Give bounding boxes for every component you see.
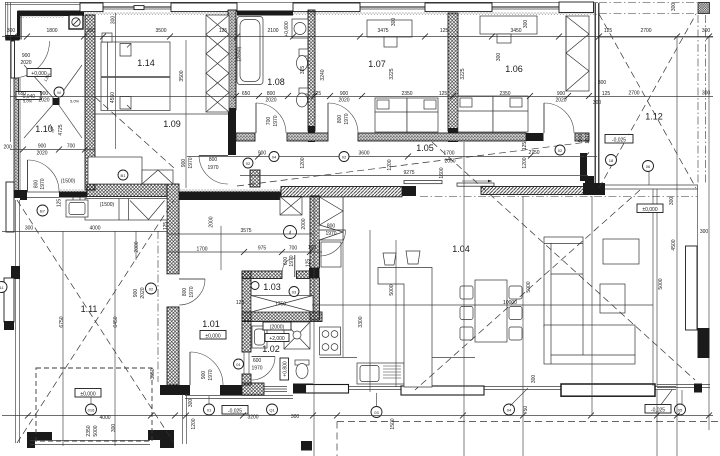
hall dim line vertical [185, 40, 187, 188]
porch step lines [183, 394, 294, 444]
svg-text:1970: 1970 [188, 157, 194, 168]
window pier box P5 corner [559, 2, 594, 13]
svg-text:04: 04 [507, 408, 512, 413]
svg-text:600: 600 [253, 358, 262, 364]
spine wall hatched band east segment [481, 187, 586, 195]
svg-text:125: 125 [604, 28, 613, 34]
svg-text:05: 05 [678, 408, 683, 413]
south wall 1.01 left segment [160, 385, 190, 395]
door arc 1.08 [256, 103, 286, 133]
svg-text:300: 300 [188, 399, 194, 408]
svg-text:(2000): (2000) [270, 325, 285, 331]
shower 1.02 [284, 322, 310, 349]
svg-text:02: 02 [342, 155, 347, 160]
svg-text:1970: 1970 [208, 369, 214, 380]
wardrobe 1.06 side triangles [566, 16, 589, 91]
window W-left2 box [6, 182, 14, 232]
svg-text:02: 02 [149, 287, 154, 292]
wall 1.07/1.06 crosshatch vertical [448, 13, 458, 131]
svg-text:300: 300 [669, 197, 675, 206]
window W1 north glazing lines [84, 6, 559, 9]
svg-text:900: 900 [40, 91, 49, 97]
dim row y246 [168, 251, 322, 253]
nightstand 1.14 [102, 33, 112, 42]
sofa vertical section [544, 237, 583, 327]
sliding door leaf A [404, 181, 442, 184]
svg-text:2100: 2100 [267, 28, 278, 34]
svg-text:02: 02 [246, 161, 251, 166]
horizontal thin helper lines [10, 37, 713, 305]
svg-text:(1500): (1500) [61, 179, 76, 185]
fridge [321, 242, 341, 267]
level box +0,800 vertical [280, 358, 289, 380]
kitchen wall crosshatch lower [310, 278, 320, 320]
dining table [475, 280, 507, 342]
bath 1.03 north wall crosshatch [242, 271, 282, 279]
spine wall pier west [20, 190, 27, 200]
svg-text:3550: 3550 [150, 368, 156, 379]
svg-text:B1: B1 [121, 173, 127, 178]
bathtub 1.03 with cross [251, 296, 313, 313]
dining chairs right [509, 286, 522, 340]
svg-text:900: 900 [557, 91, 566, 97]
svg-text:B7: B7 [40, 209, 46, 214]
svg-text:900: 900 [133, 289, 139, 298]
door arc 1.06 [544, 103, 574, 133]
svg-text:325: 325 [300, 66, 306, 75]
bed A room 1.06 [458, 96, 493, 132]
svg-text:03: 03 [374, 410, 379, 415]
kitchen hob [320, 327, 341, 355]
svg-text:2350: 2350 [86, 425, 92, 436]
svg-text:100: 100 [308, 245, 317, 251]
svg-text:(2650): (2650) [237, 46, 243, 61]
spine wall black band center [179, 192, 281, 201]
west wall upper dark [17, 11, 21, 40]
east exterior wall double lines [595, 3, 599, 183]
sofa horizontal section [544, 325, 635, 364]
bedroom south wall segment 1.08 left [236, 133, 255, 141]
terrace 1.12 north dashdot [599, 2, 697, 4]
wall 1.10/1.14 crosshatch vertical [85, 15, 95, 190]
svg-text:±0,000: ±0,000 [642, 207, 657, 213]
svg-text:1.01: 1.01 [202, 319, 220, 329]
svg-text:4000: 4000 [89, 226, 100, 232]
coffee table [600, 284, 625, 313]
south wall pier kitchen [293, 384, 313, 394]
south wall entry right segment [220, 385, 242, 395]
svg-text:900: 900 [181, 159, 187, 168]
hall bench L [88, 157, 173, 184]
kitchen sink unit [357, 363, 404, 384]
svg-text:800: 800 [209, 157, 218, 163]
wire top boundary thin line [5, 1, 598, 3]
svg-text:5000: 5000 [658, 278, 664, 289]
bath 1.03 south wall crosshatch [242, 312, 322, 322]
svg-text:300: 300 [700, 229, 709, 235]
bath 1.03 west wall crosshatch [242, 271, 251, 321]
svg-text:1970: 1970 [207, 165, 218, 171]
svg-text:2020: 2020 [20, 60, 31, 66]
svg-text:2350: 2350 [499, 91, 510, 97]
door arc kitchen from hall [320, 230, 346, 256]
west wall mid speckled [14, 78, 19, 191]
corridor circles [37, 87, 654, 239]
svg-text:1500: 1500 [390, 418, 396, 429]
svg-text:-0,025: -0,025 [612, 138, 626, 144]
svg-text:2350: 2350 [401, 91, 412, 97]
shower niche X below spine [280, 197, 302, 216]
terrace 1.12 SE black bar [698, 328, 710, 358]
wall 1.11/1.01 crosshatch vertical lower [167, 307, 179, 385]
spine wall black band left [59, 192, 87, 198]
vertical dim texts top [58, 3, 677, 136]
bidet 1.08 [297, 88, 309, 107]
wall step black near east [585, 176, 594, 187]
SE corner block of house [583, 183, 605, 195]
terrace planter [686, 246, 698, 330]
svg-text:1.12: 1.12 [645, 112, 663, 122]
corridor dim chain y158 [187, 156, 597, 158]
dim texts top row [7, 28, 711, 34]
terrace 1.11 SW corner block [27, 432, 52, 448]
bedroom south wall segment east end [575, 133, 589, 141]
svg-text:125: 125 [602, 91, 611, 97]
bed B room 1.06 [493, 96, 528, 132]
svg-text:±0,000: ±0,000 [205, 334, 220, 340]
living east window wall double line [653, 189, 657, 386]
svg-text:1970: 1970 [344, 113, 350, 124]
bedroom south wall segment 1.07/1.06 [358, 133, 526, 141]
kitchen tall cabinet triangles [320, 197, 344, 240]
svg-text:300: 300 [7, 28, 16, 34]
lamp circle 1.03 [251, 282, 259, 290]
svg-text:1.08: 1.08 [267, 77, 285, 87]
svg-text:+0,600: +0,600 [284, 21, 290, 37]
svg-text:125: 125 [219, 28, 228, 34]
spine wall insulation center [179, 189, 281, 192]
bed A room 1.07 [375, 98, 407, 132]
wc 1.02 west wall crosshatch [242, 321, 251, 352]
svg-text:125: 125 [57, 199, 63, 208]
slope lines 1.10 [24, 65, 82, 138]
svg-text:1600: 1600 [439, 167, 445, 178]
svg-text:300: 300 [25, 226, 34, 232]
terrace 1.12 north edge thin lines [605, 185, 698, 189]
svg-text:2700: 2700 [640, 28, 651, 34]
window pier box P3 [293, 3, 360, 12]
svg-text:300: 300 [702, 28, 711, 34]
svg-text:9275: 9275 [403, 170, 414, 176]
svg-text:300: 300 [111, 424, 117, 433]
svg-text:5,0%: 5,0% [23, 99, 33, 104]
bedroom south wall segment 1.08/1.07 [287, 133, 328, 141]
svg-text:1.11: 1.11 [81, 304, 98, 314]
svg-text:2000: 2000 [301, 218, 307, 229]
bath 1.03 door panel [294, 255, 296, 277]
svg-text:±0,000: ±0,000 [80, 392, 95, 398]
svg-text:016: 016 [88, 408, 95, 413]
drain point 1.10 [53, 98, 60, 105]
svg-text:3575: 3575 [240, 228, 251, 234]
spine wall crosshatch band [87, 184, 167, 197]
svg-text:1.07: 1.07 [368, 59, 386, 69]
wall 1.08/1.07 pier black [308, 126, 315, 142]
svg-text:300: 300 [593, 100, 602, 106]
room labels [35, 58, 663, 354]
bath 1.03 north wall right piece [297, 271, 310, 279]
wall 1.07/1.06 pier black [448, 128, 458, 142]
svg-text:1970: 1970 [251, 366, 262, 372]
svg-text:02: 02 [558, 148, 563, 153]
svg-text:1.03: 1.03 [263, 282, 281, 292]
svg-text:-0,025: -0,025 [651, 408, 665, 414]
svg-text:800: 800 [34, 180, 40, 189]
svg-text:975: 975 [258, 246, 267, 252]
svg-text:700: 700 [67, 144, 76, 150]
svg-text:5000: 5000 [526, 281, 532, 292]
svg-text:18: 18 [609, 158, 614, 163]
wall 1.11/1.01 crosshatch vertical [167, 184, 179, 274]
vertical dim texts left area [59, 113, 708, 436]
door arc 1.10 entry [15, 41, 50, 78]
svg-text:5000: 5000 [93, 425, 99, 436]
interior dim chain y96 bedrooms [10, 96, 713, 98]
north wall insulation strip [84, 13, 597, 16]
dashed diagonal hall long [95, 97, 174, 168]
svg-text:06: 06 [646, 164, 651, 169]
door arc B7 terrace door [28, 160, 60, 192]
terrace 1.11 SE corner block [148, 430, 174, 448]
svg-text:3500: 3500 [155, 28, 166, 34]
svg-text:125: 125 [439, 91, 448, 97]
svg-text:04: 04 [272, 155, 277, 160]
svg-text:900: 900 [201, 371, 207, 380]
svg-text:3475: 3475 [377, 28, 388, 34]
bed 2 room 1.14 [101, 78, 170, 111]
spine door leaf black [402, 186, 416, 196]
dashdot axis corridor [157, 231, 159, 382]
svg-text:3225: 3225 [460, 68, 466, 79]
north exterior wall solid left section [18, 11, 85, 17]
svg-text:800: 800 [182, 288, 188, 297]
door arc front entrance [190, 352, 223, 385]
svg-text:300: 300 [87, 28, 96, 34]
svg-text:125: 125 [522, 142, 528, 151]
svg-text:(1500): (1500) [100, 202, 115, 208]
bedroom south wall black cap [526, 133, 544, 141]
west bay pier lower [4, 321, 14, 330]
svg-text:300: 300 [291, 414, 300, 420]
left dim chain y229 [2, 231, 168, 233]
svg-text:1750: 1750 [275, 302, 286, 308]
door leaf D18 open against wall [580, 153, 587, 181]
svg-text:1700: 1700 [443, 151, 454, 157]
svg-text:01: 01 [236, 362, 241, 367]
bottom axis circles [86, 404, 686, 418]
svg-text:900: 900 [340, 91, 349, 97]
SE bottom post [694, 384, 702, 393]
svg-text:4550: 4550 [110, 92, 116, 103]
wc 1.02 west wall lower [242, 374, 251, 385]
svg-text:300: 300 [523, 20, 529, 29]
dashed X living 1 [432, 142, 695, 380]
svg-text:125: 125 [306, 259, 312, 268]
svg-text:3500: 3500 [179, 70, 185, 81]
svg-text:1970: 1970 [585, 132, 591, 143]
svg-text:3450: 3450 [510, 28, 521, 34]
window pier box P1 [80, 3, 103, 12]
dashed diagonal corridor [237, 142, 588, 186]
svg-text:125: 125 [440, 28, 449, 34]
svg-text:Q1: Q1 [269, 408, 275, 413]
toilet 1.02 [295, 360, 309, 379]
svg-text:750: 750 [523, 406, 529, 415]
kitchen wall black pier [309, 268, 320, 278]
svg-text:1.14: 1.14 [137, 58, 155, 68]
spine wall hatched band west of opening [281, 187, 402, 197]
wall 1.09/1.08 pier black [228, 108, 236, 155]
bed B room 1.07 [407, 98, 438, 132]
svg-text:4725: 4725 [58, 124, 64, 135]
svg-text:5,0%: 5,0% [70, 99, 80, 104]
dining chairs left [460, 286, 473, 340]
patio dashed boundary [337, 422, 720, 456]
svg-text:1.09: 1.09 [163, 119, 181, 129]
svg-text:03: 03 [292, 290, 297, 295]
bottom dim line [2, 415, 713, 417]
dashed X terrace 1.11 [17, 200, 174, 443]
svg-text:300: 300 [671, 3, 677, 12]
terrace 1.12 dashdot verticals [697, 15, 699, 183]
svg-text:1.06: 1.06 [505, 64, 523, 74]
terrace 1.11 south edge double line [30, 441, 150, 445]
sliding door leaf B [457, 183, 494, 186]
svg-text:800: 800 [267, 91, 276, 97]
svg-text:3225: 3225 [389, 68, 395, 79]
roof overhang dashed rect over terrace 1.11 [36, 368, 152, 441]
sliding leaf S3 [561, 384, 655, 396]
svg-text:+0,800: +0,800 [283, 361, 289, 377]
svg-text:300: 300 [496, 53, 502, 62]
svg-text:+2,000: +2,000 [269, 336, 285, 342]
dashed X terrace 1.12 [599, 14, 696, 188]
svg-text:700: 700 [289, 246, 298, 252]
svg-text:125: 125 [163, 222, 169, 231]
mid dim chain y231 3575 [168, 233, 313, 235]
svg-text:4500: 4500 [671, 239, 677, 250]
terrace 1.12 NE post hatched [698, 3, 710, 14]
toilet 1.08 [297, 49, 309, 71]
wc west door thin lines [244, 352, 249, 374]
chimney box with vent circle [69, 15, 83, 29]
svg-text:1800: 1800 [46, 28, 57, 34]
terrace 1.11 west edge double line [16, 200, 20, 443]
washbasin 1.02 [252, 326, 267, 348]
window W-bay box [4, 278, 14, 322]
entry pier black [5, 35, 19, 41]
sliding leaf S1 [306, 385, 349, 394]
svg-text:3600: 3600 [358, 151, 369, 157]
south glazing band kitchen-living [313, 387, 676, 390]
svg-text:01: 01 [207, 408, 212, 413]
west bay pier upper [11, 266, 20, 279]
svg-text:3200: 3200 [247, 415, 258, 421]
svg-text:1970: 1970 [273, 115, 279, 126]
svg-text:1970: 1970 [189, 286, 195, 297]
svg-text:4000: 4000 [99, 415, 110, 421]
niche box below spine [85, 199, 167, 221]
svg-text:300: 300 [531, 375, 537, 384]
wardrobe 1.09 triangles [206, 15, 229, 112]
wardrobe 1.07 top [367, 20, 412, 47]
door gap 1.01 west [167, 274, 179, 307]
svg-text:900: 900 [578, 134, 584, 143]
svg-text:1200: 1200 [191, 418, 197, 429]
terrace 1.12 east edge double line [698, 185, 710, 330]
ticks y96 [233, 93, 592, 99]
entry door panel 1.10 [11, 41, 15, 78]
svg-text:3300: 3300 [358, 316, 364, 327]
bed 1 room 1.14 [101, 42, 170, 77]
west recess thin double line [5, 3, 7, 39]
svg-text:5000: 5000 [389, 284, 395, 295]
bathtub 1.08 [237, 17, 263, 85]
svg-text:2000: 2000 [134, 241, 140, 252]
door arc 1.07 [328, 103, 358, 133]
kitchen west wall crosshatch [310, 196, 320, 268]
svg-text:2000: 2000 [209, 216, 215, 227]
svg-text:1200: 1200 [387, 159, 393, 170]
sliding leaf S2 [401, 386, 484, 395]
svg-text:1.02: 1.02 [262, 344, 280, 354]
dashed X living 2 [415, 190, 640, 390]
9275 text [240, 175, 588, 177]
svg-text:700: 700 [266, 117, 272, 126]
svg-text:800: 800 [327, 224, 336, 230]
dim ticks top [11, 34, 712, 40]
svg-text:2020: 2020 [265, 98, 276, 104]
spine wall insulation left [59, 189, 87, 192]
svg-text:2020: 2020 [38, 98, 49, 104]
svg-text:6450: 6450 [113, 316, 119, 327]
svg-text:300: 300 [391, 18, 397, 27]
window divider small box [134, 6, 144, 10]
kitchen counter run [320, 197, 476, 358]
thin partition line 1.14/1.09 [95, 113, 228, 115]
svg-text:-0,025: -0,025 [228, 409, 242, 415]
svg-text:6750: 6750 [59, 316, 65, 327]
svg-text:2020: 2020 [36, 151, 47, 157]
svg-text:2700: 2700 [628, 91, 639, 97]
svg-text:M: M [57, 90, 60, 95]
door arc 1.01 west [179, 279, 205, 305]
svg-text:650: 650 [18, 91, 27, 97]
door arc 1.02 entry [252, 357, 276, 381]
svg-text:1700: 1700 [196, 247, 207, 253]
svg-text:2020: 2020 [140, 287, 146, 298]
west wall pier at spine [14, 190, 27, 198]
washbasin 1.08 [292, 19, 308, 38]
wall 1.09/1.08 partition [228, 10, 236, 110]
svg-text:1.05: 1.05 [416, 143, 434, 153]
window pier box P2 [171, 3, 237, 12]
south east bottom edge lines [657, 385, 710, 388]
svg-text:300: 300 [598, 80, 607, 86]
bar stool 1 [383, 253, 396, 265]
level boxes [16, 69, 671, 415]
svg-text:2050: 2050 [444, 159, 455, 165]
